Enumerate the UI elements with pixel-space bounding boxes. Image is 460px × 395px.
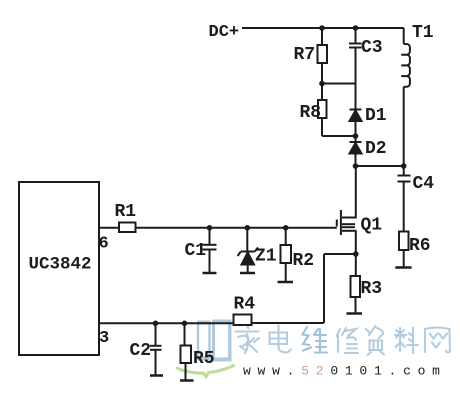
resistor R5 (181, 323, 192, 379)
watermark char 料 (395, 328, 418, 354)
ground bar R6 (395, 266, 411, 269)
node junction C2 (153, 321, 159, 327)
svg-text:DC+: DC+ (209, 23, 240, 42)
ground bar Z1 (240, 272, 255, 275)
svg-text:R6: R6 (409, 236, 431, 256)
ground bar R3 (347, 312, 363, 315)
resistor R3 (351, 254, 361, 313)
svg-text:T1: T1 (412, 23, 434, 43)
node junction C1 (207, 225, 213, 231)
op-amp U1 UC3842 box (19, 182, 99, 355)
watermark char 资 (366, 326, 384, 355)
resistor R1 (119, 223, 136, 233)
wire top rail (242, 27, 404, 29)
wire R7 bottom to C3 line (322, 83, 356, 85)
capacitor C4 (398, 166, 411, 232)
wire R4 to riser (252, 322, 325, 324)
resistor R6 (399, 232, 409, 267)
svg-text:R4: R4 (234, 295, 256, 315)
node junction R7/top (319, 25, 325, 31)
watermark char 电 (270, 326, 292, 353)
transformer T1 (401, 28, 410, 166)
node junction R2 (283, 225, 289, 231)
watermark green swoosh (177, 366, 234, 377)
watermark char 维 (303, 327, 328, 353)
ground bar C1 (203, 272, 217, 275)
svg-text:Q1: Q1 (361, 216, 383, 236)
svg-text:C1: C1 (185, 241, 207, 261)
svg-text:UC3842: UC3842 (29, 255, 92, 275)
resistor R2 (281, 228, 292, 281)
svg-text:C2: C2 (130, 341, 152, 361)
wire R8 bottom to D1/D2 node (322, 135, 356, 137)
wire D2 node to T1 bottom (356, 165, 404, 167)
svg-text:Z1: Z1 (255, 247, 277, 267)
svg-text:R8: R8 (300, 103, 322, 123)
watermark char 修 (337, 328, 359, 353)
resistor R4 (234, 315, 252, 326)
capacitor C1 (203, 228, 217, 272)
node junction D1/D2 (353, 133, 359, 139)
capacitor C2 (150, 323, 162, 374)
diode D2 (350, 136, 362, 166)
wire pin6 to R1 (99, 227, 119, 229)
svg-text:C3: C3 (361, 38, 383, 58)
capacitor C3 (349, 28, 362, 110)
node junction drain/C4 rail (353, 163, 359, 169)
node junction source/R3 (353, 251, 359, 257)
ground bar R2 (278, 281, 294, 284)
ground bar R5 (180, 379, 194, 382)
zener Z1 (238, 228, 258, 272)
watermark char 家 (236, 326, 260, 354)
svg-text:R2: R2 (293, 251, 315, 271)
wire pin3 to R4 (99, 322, 234, 324)
node junction Z1 (245, 225, 251, 231)
svg-text:R1: R1 (115, 202, 137, 222)
watermark char 网 (425, 328, 450, 353)
svg-text:R5: R5 (193, 349, 215, 369)
svg-text:R3: R3 (361, 279, 383, 299)
svg-text:C4: C4 (413, 174, 435, 194)
svg-text:D1: D1 (365, 106, 387, 126)
node junction R5 (182, 321, 188, 327)
watermark book logo (197, 322, 232, 361)
diode D1 (350, 110, 362, 137)
svg-text:D2: D2 (365, 139, 387, 159)
node junction C3/top (353, 25, 359, 31)
node junction R7 bottom (319, 81, 325, 87)
svg-text:6: 6 (99, 235, 109, 254)
resistor R8 (318, 84, 327, 137)
wire R1 to gate (136, 227, 337, 229)
transistor Q1 (MOSFET) (337, 166, 357, 254)
resistor R7 (318, 28, 328, 84)
svg-text:3: 3 (99, 329, 109, 348)
ground bar C2 (150, 374, 163, 377)
svg-text:R7: R7 (294, 45, 316, 65)
svg-text:www.520101.com: www.520101.com (243, 364, 447, 379)
wire source node left and down to R4 (324, 254, 356, 323)
